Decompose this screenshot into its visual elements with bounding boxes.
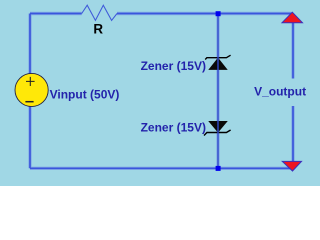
voltage source minus sign — [25, 101, 33, 103]
svg-text:Zener (15V): Zener (15V) — [141, 59, 206, 73]
wire halo underlay (soft AA glow beneath all wires) — [30, 14, 293, 169]
wire: left vertical — [29, 14, 31, 169]
arrow head bottom (red) — [282, 161, 301, 171]
wire: bottom horizontal — [30, 167, 290, 169]
zener diode D1 bar with bent ends — [205, 55, 230, 59]
zener diode D2 (lower) triangle — [209, 122, 226, 132]
node: bottom junction — [216, 166, 221, 171]
voltage source V1 — [15, 73, 48, 106]
V_output measurement line lower segment — [292, 106, 294, 161]
zener diode D1 (upper) triangle — [209, 58, 226, 69]
svg-text:V_output: V_output — [254, 84, 306, 98]
voltage source plus sign — [26, 77, 35, 86]
resistor R1 zigzag — [82, 5, 117, 20]
node: top junction — [216, 11, 221, 16]
wire: top, from resistor to output arrow — [117, 13, 292, 15]
wire: top, from left corner to resistor — [30, 13, 82, 15]
zener diode D2 bar with bent ends — [204, 130, 231, 136]
arrow head top (red) — [282, 12, 303, 23]
svg-text:Vinput (50V): Vinput (50V) — [50, 88, 120, 102]
svg-text:R: R — [93, 22, 103, 37]
wire: zener branch vertical (drawn over diodes) — [217, 14, 219, 169]
svg-text:Zener (15V): Zener (15V) — [141, 121, 206, 135]
V_output measurement line upper segment — [292, 23, 294, 79]
